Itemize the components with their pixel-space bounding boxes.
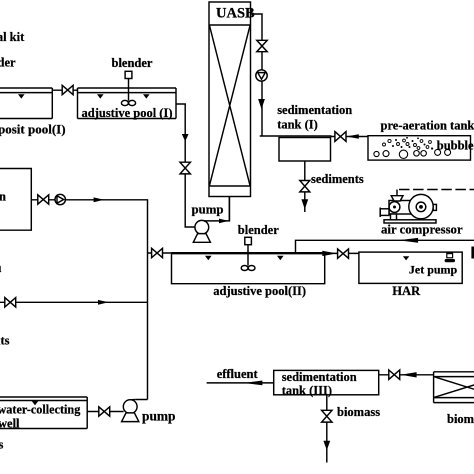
svg-text:sedimentation: sedimentation <box>282 370 357 384</box>
svg-text:effluent: effluent <box>217 367 259 381</box>
svg-text:biomass: biomass <box>447 412 474 426</box>
svg-text:tank (III): tank (III) <box>282 383 332 397</box>
svg-text:water-collecting: water-collecting <box>0 403 80 417</box>
svg-text:pump: pump <box>192 202 224 216</box>
svg-text:tank (I): tank (I) <box>277 118 318 132</box>
svg-text:posit pool(I): posit pool(I) <box>0 121 66 136</box>
svg-text:s: s <box>0 438 4 452</box>
svg-text:blender: blender <box>112 56 153 70</box>
svg-text:Jet pump: Jet pump <box>409 263 458 277</box>
svg-text:blender: blender <box>238 223 279 237</box>
svg-text:UASB: UASB <box>216 6 255 22</box>
svg-text:air compressor: air compressor <box>381 223 463 237</box>
svg-text:u: u <box>0 261 2 275</box>
svg-text:biomass: biomass <box>337 405 380 419</box>
svg-text:HAR: HAR <box>392 284 421 298</box>
svg-text:. bubble: . bubble <box>431 138 474 152</box>
svg-text:adjustive pool (I): adjustive pool (I) <box>82 106 173 120</box>
svg-text:pump: pump <box>142 409 176 424</box>
svg-text:pre-aeration tank: pre-aeration tank <box>381 119 474 133</box>
svg-text:al kit: al kit <box>0 30 25 44</box>
svg-text:adjustive pool(II): adjustive pool(II) <box>213 284 306 298</box>
svg-text:sediments: sediments <box>311 172 364 186</box>
svg-text:sedimentation: sedimentation <box>277 103 352 117</box>
svg-text:der: der <box>0 56 16 70</box>
svg-text:n: n <box>0 190 6 204</box>
svg-text:well: well <box>0 416 20 430</box>
svg-text:nts: nts <box>0 334 10 348</box>
